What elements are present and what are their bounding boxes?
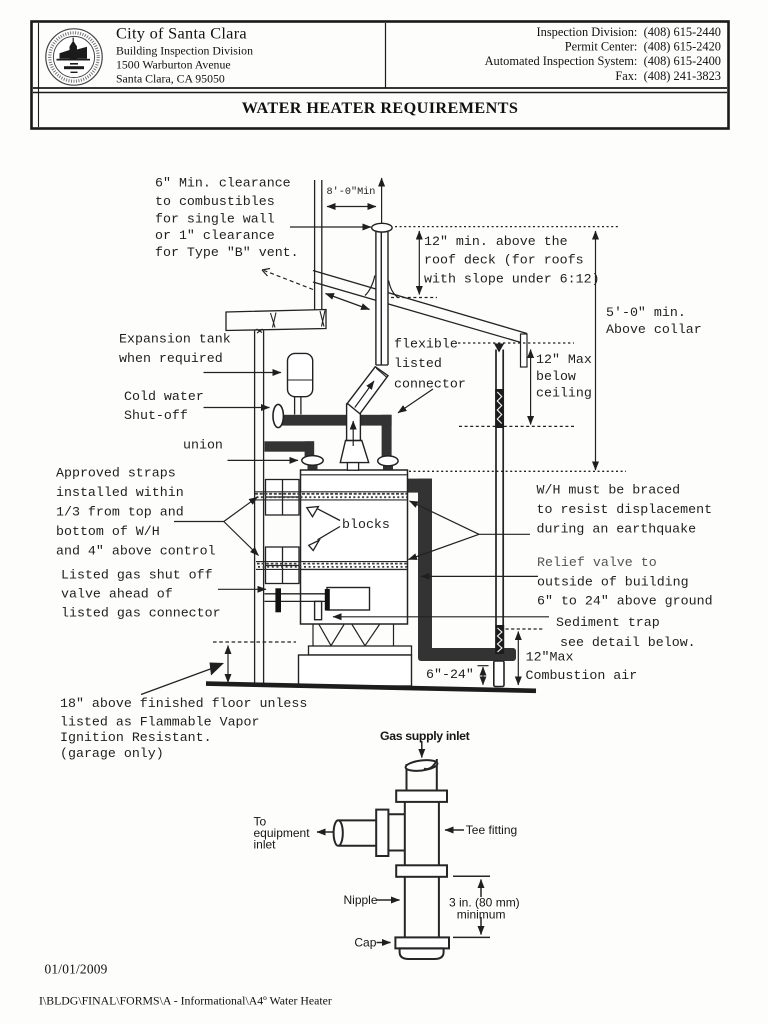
svg-text:listed gas connector: listed gas connector bbox=[61, 606, 221, 621]
svg-text:Nipple: Nipple bbox=[344, 893, 378, 907]
svg-text:Cold water: Cold water bbox=[124, 389, 204, 404]
svg-text:during an earthquake: during an earthquake bbox=[537, 522, 697, 537]
svg-text:bottom of W/H: bottom of W/H bbox=[56, 524, 160, 539]
svg-text:inlet: inlet bbox=[254, 837, 277, 851]
svg-text:WATER HEATER REQUIREMENTS: WATER HEATER REQUIREMENTS bbox=[242, 99, 519, 117]
svg-text:Santa Clara, CA 95050: Santa Clara, CA 95050 bbox=[116, 72, 225, 86]
svg-text:Listed gas shut off: Listed gas shut off bbox=[61, 568, 213, 583]
svg-text:City of Santa Clara: City of Santa Clara bbox=[116, 24, 247, 43]
svg-text:union: union bbox=[183, 438, 223, 453]
svg-text:Cap: Cap bbox=[354, 935, 376, 949]
svg-text:Relief valve to: Relief valve to bbox=[537, 555, 657, 570]
svg-text:ceiling: ceiling bbox=[536, 386, 592, 401]
svg-text:valve ahead of: valve ahead of bbox=[61, 587, 173, 602]
svg-text:below: below bbox=[536, 369, 576, 384]
svg-text:(garage only): (garage only) bbox=[60, 746, 164, 761]
svg-text:Inspection Division: (408) 61: Inspection Division: (408) 615-2440 bbox=[537, 25, 721, 39]
svg-text:12"Max: 12"Max bbox=[526, 650, 574, 665]
svg-text:6" to 24" above ground: 6" to 24" above ground bbox=[537, 594, 713, 609]
svg-text:roof deck (for roofs: roof deck (for roofs bbox=[424, 253, 584, 268]
svg-text:outside of building: outside of building bbox=[537, 575, 689, 590]
svg-text:Approved straps: Approved straps bbox=[56, 466, 176, 481]
svg-text:6" Min. clearance: 6" Min. clearance bbox=[155, 176, 291, 191]
svg-text:01/01/2009: 01/01/2009 bbox=[45, 962, 108, 977]
svg-text:12" min. above the: 12" min. above the bbox=[424, 234, 568, 249]
svg-text:18" above finished floor unles: 18" above finished floor unless bbox=[60, 696, 307, 711]
svg-text:Building Inspection Division: Building Inspection Division bbox=[116, 44, 253, 58]
svg-text:listed as Flammable Vapor: listed as Flammable Vapor bbox=[60, 715, 260, 730]
svg-text:8'-0"Min: 8'-0"Min bbox=[327, 186, 376, 198]
svg-text:Combustion air: Combustion air bbox=[526, 668, 638, 683]
svg-text:to resist displacement: to resist displacement bbox=[537, 502, 713, 517]
svg-text:for Type "B" vent.: for Type "B" vent. bbox=[155, 245, 299, 260]
svg-text:1/3 from top and: 1/3 from top and bbox=[56, 505, 184, 520]
svg-text:see detail below.: see detail below. bbox=[560, 635, 696, 650]
svg-text:Gas supply inlet: Gas supply inlet bbox=[380, 729, 470, 743]
svg-text:or 1" clearance: or 1" clearance bbox=[155, 228, 275, 243]
svg-text:for single wall: for single wall bbox=[155, 212, 275, 227]
svg-text:W/H must be braced: W/H must be braced bbox=[537, 483, 681, 498]
svg-text:listed: listed bbox=[394, 356, 442, 371]
svg-text:6"-24": 6"-24" bbox=[426, 667, 474, 682]
svg-text:blocks: blocks bbox=[342, 517, 390, 532]
svg-text:Shut-off: Shut-off bbox=[124, 408, 188, 423]
svg-text:to combustibles: to combustibles bbox=[155, 194, 275, 209]
svg-text:with slope under 6:12): with slope under 6:12) bbox=[424, 272, 600, 287]
svg-text:12" Max: 12" Max bbox=[536, 352, 592, 367]
svg-text:Automated Inspection System:: Automated Inspection System: (408) 615-2… bbox=[485, 54, 721, 68]
svg-text:Permit Center: (408) 615-2420: Permit Center: (408) 615-2420 bbox=[565, 40, 721, 54]
svg-text:flexible: flexible bbox=[394, 337, 458, 352]
svg-text:Above collar: Above collar bbox=[606, 322, 702, 337]
svg-text:I\BLDG\FINAL\FORMS\A - Informa: I\BLDG\FINAL\FORMS\A - Informational\A4º… bbox=[39, 994, 332, 1008]
svg-text:Expansion tank: Expansion tank bbox=[119, 332, 231, 347]
svg-text:Sediment trap: Sediment trap bbox=[556, 615, 660, 630]
svg-text:1500 Warburton Avenue: 1500 Warburton Avenue bbox=[116, 58, 231, 72]
svg-text:minimum: minimum bbox=[457, 908, 506, 922]
svg-text:and 4" above control: and 4" above control bbox=[56, 544, 216, 559]
svg-text:when required: when required bbox=[119, 351, 223, 366]
svg-text:installed within: installed within bbox=[56, 485, 184, 500]
svg-text:5'-0" min.: 5'-0" min. bbox=[606, 305, 686, 320]
svg-text:connector: connector bbox=[394, 377, 466, 392]
svg-text:Ignition Resistant.: Ignition Resistant. bbox=[60, 730, 212, 745]
svg-text:Tee fitting: Tee fitting bbox=[466, 823, 517, 837]
svg-text:Fax: (408) 241-3823: Fax: (408) 241-3823 bbox=[615, 69, 721, 83]
